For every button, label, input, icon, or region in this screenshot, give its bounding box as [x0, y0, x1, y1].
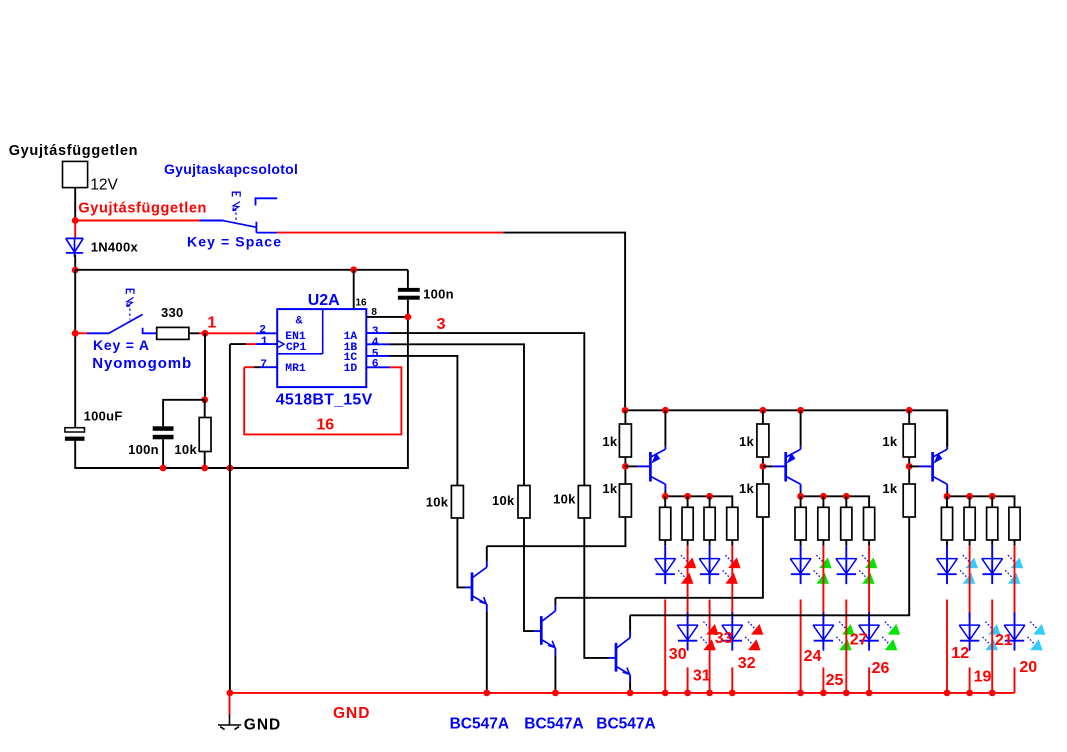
svg-text:&: & [296, 316, 303, 328]
node bus junction [662, 407, 669, 414]
node LED cathode ground [820, 690, 827, 697]
pin stub EN1 [256, 332, 277, 334]
wire 10k to Q1 base [457, 518, 465, 587]
LED 21 [991, 546, 993, 559]
key symbol S1 [232, 192, 240, 196]
svg-text:GND: GND [333, 705, 370, 722]
wire Q2 collector [554, 605, 556, 611]
wire J1 to node [74, 188, 76, 220]
wire cathode lower (red) [969, 667, 971, 693]
wire resistor stub [822, 496, 824, 507]
resistor 1k lower group3 [903, 484, 915, 517]
wire cathode lower (red) [687, 667, 689, 693]
switch S1 Key=Space [200, 220, 224, 222]
pin stub 1B [366, 343, 389, 345]
svg-text:3: 3 [437, 316, 446, 333]
node key-A tap [72, 330, 79, 337]
wire resistor bottom stub [687, 540, 689, 546]
resistor LED group1 col4 [727, 507, 738, 540]
svg-text:16: 16 [356, 298, 368, 309]
svg-text:1: 1 [207, 315, 216, 332]
wire node1 down to 10k [204, 333, 206, 400]
node anode bus group2 [797, 493, 804, 500]
wire 12V feed (red) [75, 220, 199, 222]
resistor LED group1 col2 [682, 507, 693, 540]
wire cathode (red) [800, 600, 802, 693]
wire cathode lower (red) [868, 667, 870, 693]
wire 1A to 10k R5 [390, 333, 585, 485]
node base group3 [906, 463, 913, 470]
node base group2 [760, 463, 767, 470]
svg-text:24: 24 [804, 648, 822, 665]
resistor LED group2 col2 [818, 507, 829, 540]
LED 32 light arrows [748, 622, 755, 629]
node 1 junction [202, 330, 209, 337]
node anode bus group1 [662, 493, 669, 500]
svg-text:6: 6 [372, 359, 379, 371]
wire 10k to Q3 base [584, 518, 609, 658]
wire 1k junction group3 [908, 457, 910, 484]
LED 30 [664, 546, 666, 559]
wire 100n top [163, 400, 205, 427]
wire MR1 red stub [244, 366, 254, 368]
svg-text:10k: 10k [426, 495, 449, 510]
node bus junction [622, 407, 629, 414]
node LED cathode ground [944, 690, 951, 697]
wire PNP emitter group3 [946, 446, 948, 449]
svg-text:1k: 1k [602, 481, 618, 496]
wire Q3 emitter to ground [629, 675, 631, 682]
wire MR1 to 1D loop (red) [244, 367, 401, 434]
node LED cathode ground [843, 690, 850, 697]
wire PNP emitter group2 [800, 446, 802, 449]
resistor 1k upper group2 [762, 410, 764, 424]
resistor 1k upper group3 [908, 410, 910, 424]
svg-text:CP1: CP1 [286, 342, 307, 354]
svg-text:10k: 10k [174, 442, 197, 457]
wire 1k junction group1 [624, 457, 626, 484]
resistor LED group1 col3 [704, 507, 715, 540]
wire 12V switched bus [625, 410, 947, 446]
wire to lower LED (red) [731, 546, 733, 618]
node LED cathode ground [966, 690, 973, 697]
transistor Q1 BC547A [471, 572, 474, 601]
wire resistor stub [664, 496, 666, 507]
wire C3 bottom to pin 8 [366, 300, 408, 317]
node anode bus group3 [989, 493, 996, 500]
node LED cathode ground [866, 690, 873, 697]
node ground rail [227, 690, 234, 697]
capacitor C1 100uF [65, 428, 85, 432]
pin stub CP1 [256, 343, 277, 345]
wire switch output (red) [277, 232, 503, 234]
wire diode to bottom node [74, 255, 76, 271]
LED 20 light arrows [1030, 622, 1037, 629]
wire cathode (red) [664, 600, 666, 693]
wire 10k to Q2 base [524, 518, 534, 631]
capacitor C3 100n [398, 288, 420, 292]
LED 33 [709, 546, 711, 559]
wire Q1 collector [486, 561, 488, 567]
wire PNP emitter group1 [664, 446, 666, 449]
node bus junction [760, 407, 767, 414]
wire switch output (black) [503, 233, 625, 411]
node anode bus group2 [820, 493, 827, 500]
wire 10k leads [204, 400, 206, 468]
LED 27 [845, 546, 847, 559]
node LED cathode ground [989, 690, 996, 697]
svg-text:GND: GND [244, 716, 281, 733]
svg-text:20: 20 [1019, 659, 1037, 676]
switch S2 Key=A pushbutton [75, 332, 87, 334]
LED 12 light arrows [963, 555, 970, 562]
LED 26 [868, 612, 870, 625]
svg-text:10k: 10k [553, 491, 576, 506]
wire MR1 black stub [254, 366, 260, 368]
wire to lower LED (red) [1014, 546, 1016, 618]
svg-text:12: 12 [951, 645, 969, 662]
wire 100n bottom [162, 439, 164, 468]
wire cathode (red) [991, 600, 993, 693]
svg-text:U2A: U2A [308, 292, 340, 309]
wire PNP collector group2 [800, 484, 802, 491]
svg-text:BC547A: BC547A [450, 715, 509, 732]
LED 21 light arrows [1008, 555, 1015, 562]
node anode bus group1 [684, 493, 691, 500]
node emitter ground [483, 690, 490, 697]
node junction 12V rail [72, 217, 79, 224]
resistor LED group3 col4 [1009, 507, 1020, 540]
wire 1k junction group2 [762, 457, 764, 484]
svg-text:31: 31 [693, 667, 711, 684]
svg-text:1C: 1C [344, 352, 358, 364]
transistor Q3 BC547A [615, 643, 618, 672]
node pin16 tap [350, 266, 357, 273]
svg-text:4518BT_15V: 4518BT_15V [276, 391, 373, 408]
wire to lower LED (red) [868, 546, 870, 618]
pin stub 1A [366, 332, 389, 334]
anode bus group3 [947, 496, 1015, 507]
wire cathode (red) [709, 600, 711, 693]
svg-text:33: 33 [715, 630, 733, 647]
wire cathode lower (red) [731, 667, 733, 693]
wire 330 to node 1 [189, 332, 200, 334]
ground bus (red) [230, 692, 1015, 694]
resistor LED group3 col3 [987, 507, 998, 540]
wire C3 top [407, 270, 409, 288]
svg-text:330: 330 [161, 305, 184, 320]
wire 100uF to ground bus [75, 317, 408, 468]
wire resistor stub [991, 496, 993, 507]
wire node to diode (red) [74, 221, 76, 238]
wire resistor bottom stub [800, 540, 802, 546]
resistor R4 10k [518, 486, 530, 519]
wire resistor stub [709, 496, 711, 507]
svg-text:Key = A: Key = A [93, 337, 150, 353]
LED 12 [946, 546, 948, 559]
wire pin 16 to VCC rail [353, 270, 355, 309]
svg-text:30: 30 [669, 646, 687, 663]
svg-text:32: 32 [738, 655, 756, 672]
LED 27 light arrows [862, 555, 869, 562]
svg-text:100uF: 100uF [84, 408, 123, 423]
node anode bus group3 [944, 493, 951, 500]
svg-text:1N400x: 1N400x [91, 240, 139, 255]
svg-text:1k: 1k [602, 434, 618, 449]
capacitor C2 100n [153, 426, 174, 431]
wire cathode lower (red) [1014, 667, 1016, 693]
wire resistor bottom stub [822, 540, 824, 546]
wire to lower LED (red) [822, 546, 824, 618]
svg-text:100n: 100n [128, 442, 159, 457]
node LED cathode ground [662, 690, 669, 697]
svg-text:Key = Space: Key = Space [187, 233, 282, 249]
node 10k ground [201, 465, 208, 472]
svg-text:1k: 1k [882, 434, 898, 449]
wire to lower LED (red) [969, 546, 971, 618]
resistor R3 10k [451, 486, 463, 519]
svg-text:12V: 12V [90, 177, 118, 194]
ground [218, 715, 241, 730]
svg-text:26: 26 [872, 660, 890, 677]
svg-text:1k: 1k [739, 481, 755, 496]
wire to lower LED (red) [687, 546, 689, 618]
svg-text:100n: 100n [423, 286, 454, 301]
wire 1B to 10k R4 [390, 344, 525, 485]
anode bus group2 [801, 496, 870, 507]
svg-text:16: 16 [316, 417, 334, 434]
wire resistor stub [969, 496, 971, 507]
resistor LED group1 col1 [660, 507, 671, 540]
wire cathode (red) [946, 600, 948, 693]
svg-text:1k: 1k [739, 434, 755, 449]
svg-text:1D: 1D [344, 363, 358, 375]
LED 24 light arrows [816, 555, 823, 562]
transistor PNP group3 [931, 452, 934, 482]
wire cathode lower (red) [822, 667, 824, 693]
svg-text:7: 7 [260, 359, 267, 371]
LED 31 [687, 612, 689, 625]
node LED cathode ground [706, 690, 713, 697]
wire Q3 collector [629, 632, 631, 638]
wire resistor bottom stub [991, 540, 993, 546]
svg-text:Gyujtásfüggetlen: Gyujtásfüggetlen [78, 201, 207, 217]
connector J1 12V [63, 161, 88, 187]
svg-text:Nyomogomb: Nyomogomb [92, 355, 192, 372]
transistor PNP group1 [649, 452, 652, 482]
transistor PNP group2 [784, 452, 787, 482]
svg-text:1: 1 [261, 336, 268, 348]
op-amp U2A 4518 counter [277, 309, 366, 387]
svg-text:2: 2 [259, 324, 266, 336]
resistor LED group2 col4 [864, 507, 875, 540]
wire 1k lower to Q2 collector [555, 517, 763, 598]
LED 26 light arrows [885, 622, 892, 629]
wire node1 to EN1 (red) [205, 332, 256, 334]
wire resistor stub [687, 496, 689, 507]
node 10k top [201, 396, 208, 403]
node LED cathode ground [797, 690, 804, 697]
wire to ground symbol (red) [229, 693, 231, 715]
node anode bus group2 [843, 493, 850, 500]
resistor 1k upper group1 [624, 410, 626, 424]
resistor 1k lower group1 [619, 484, 631, 517]
wire resistor stub [845, 496, 847, 507]
node pin8/C3 [405, 314, 412, 321]
wire resistor stub [800, 496, 802, 507]
node 100n ground [160, 465, 167, 472]
LED 33 light arrows [725, 555, 732, 562]
LED 24 [800, 546, 802, 559]
svg-text:MR1: MR1 [285, 363, 306, 375]
resistor 1k lower group2 [757, 484, 769, 517]
LED 20 [1014, 612, 1016, 625]
svg-text:BC547A: BC547A [596, 715, 655, 732]
pin stub 1C [366, 355, 389, 357]
wire resistor bottom stub [709, 540, 711, 546]
svg-text:Gyujtásfüggetlen: Gyujtásfüggetlen [9, 143, 138, 159]
wire resistor stub [946, 496, 948, 507]
wire PNP collector group3 [946, 484, 948, 491]
wire resistor bottom stub [868, 540, 870, 546]
node base group1 [622, 463, 629, 470]
wire PNP collector group1 [664, 484, 666, 491]
LED 25 light arrows [839, 622, 846, 629]
resistor LED group2 col3 [841, 507, 852, 540]
wire resistor bottom stub [731, 540, 733, 546]
svg-text:10k: 10k [492, 493, 515, 508]
pin stub MR1 [260, 366, 277, 368]
key symbol S2 [126, 289, 133, 294]
LED 19 light arrows [985, 622, 992, 629]
node anode bus group3 [966, 493, 973, 500]
resistor LED group3 col1 [941, 507, 952, 540]
node CP1 rail ground [227, 465, 234, 472]
wire resistor bottom stub [1014, 540, 1016, 546]
LED 25 [822, 612, 824, 625]
anode bus group1 [665, 496, 732, 507]
node bus junction [906, 407, 913, 414]
resistor R2 10k [199, 418, 211, 452]
LED 32 [731, 612, 733, 625]
node LED cathode ground [729, 690, 736, 697]
svg-text:4: 4 [372, 337, 379, 349]
resistor LED group3 col2 [964, 507, 975, 540]
diode D1 1N400x [66, 238, 83, 257]
wire 1C to 10k R3 [390, 356, 458, 486]
wire resistor bottom stub [969, 540, 971, 546]
wire 1k lower to Q1 collector [487, 517, 626, 546]
svg-text:25: 25 [826, 672, 844, 689]
svg-text:BC547A: BC547A [524, 715, 583, 732]
resistor LED group2 col1 [795, 507, 806, 540]
wire resistor bottom stub [946, 540, 948, 546]
node diode output [72, 267, 79, 274]
svg-text:Gyujtaskapcsolotol: Gyujtaskapcsolotol [164, 161, 298, 177]
node anode bus group1 [706, 493, 713, 500]
resistor R5 10k [578, 486, 590, 519]
svg-text:19: 19 [974, 669, 992, 686]
svg-text:27: 27 [850, 632, 868, 649]
wire CP1 to ground rail [230, 344, 246, 693]
node emitter ground [627, 690, 634, 697]
node LED cathode ground [684, 690, 691, 697]
wire horizontal to cap/pin16 [75, 269, 408, 271]
svg-text:21: 21 [995, 632, 1013, 649]
wire cathode (red) [845, 600, 847, 693]
svg-text:1k: 1k [882, 481, 898, 496]
wire Q1 emitter to ground [486, 604, 488, 611]
wire CP1 red [246, 343, 256, 345]
wire left rail down [74, 270, 76, 428]
LED 30 light arrows [681, 555, 688, 562]
LED 19 [969, 612, 971, 625]
resistor R1 330 [157, 327, 189, 339]
wire resistor bottom stub [664, 540, 666, 546]
wire Q2 emitter to ground [554, 648, 556, 655]
LED 31 light arrows [703, 622, 710, 629]
wire resistor bottom stub [845, 540, 847, 546]
node emitter ground [552, 690, 559, 697]
node bus junction [797, 407, 804, 414]
transistor Q2 BC547A [540, 616, 543, 645]
pin CP1 clock triangle [278, 341, 284, 348]
wire 1k lower to Q3 collector [630, 517, 909, 615]
pin stub 1D [366, 366, 390, 368]
